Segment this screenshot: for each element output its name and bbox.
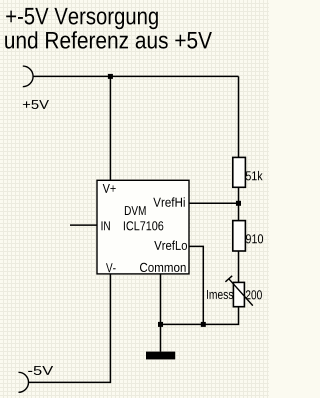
label -5V: [28, 366, 53, 375]
value 910: [246, 234, 263, 243]
wire 51k to 910: [238, 187, 240, 220]
wire VrefLo pin right then down: [189, 246, 203, 324]
wire V- pin down and left to -5V: [29, 274, 111, 383]
resistor R1 51k: [233, 157, 246, 187]
wire to ground: [160, 324, 162, 351]
pin label Common: [140, 263, 186, 272]
wire Common pin down: [160, 274, 162, 325]
junction VrefLo to common rail: [201, 322, 206, 327]
wire VrefHi pin: [189, 202, 239, 204]
wire pot bottom down and left along common rail: [161, 307, 239, 325]
resistor R2 910: [233, 221, 246, 251]
value ICL7106: [124, 221, 163, 230]
pin label V+: [103, 184, 116, 193]
title line 2: [5, 31, 212, 48]
pin label VrefHi: [153, 197, 184, 207]
connector +5V symbol: [23, 66, 33, 87]
IC U1 ICL7106 DVM box: [97, 180, 189, 274]
junction top V+ tap: [108, 74, 113, 79]
label +5V: [23, 100, 49, 109]
label DVM: [125, 206, 146, 215]
potentiometer arrow diagonal: [229, 279, 253, 306]
ground: [146, 352, 175, 360]
wire IN pin stub: [70, 224, 97, 226]
title line 1: [6, 8, 158, 29]
wire 910 to pot: [238, 251, 240, 282]
junction VrefHi node: [236, 201, 241, 206]
value 200: [246, 290, 262, 299]
pin label IN: [102, 221, 110, 230]
potentiometer P1 200 body: [233, 282, 244, 306]
pin label VrefLo: [154, 241, 187, 251]
connector -5V symbol: [19, 372, 29, 392]
value 51k: [246, 171, 263, 181]
wire top horizontal from +5V to corner: [33, 75, 238, 77]
potentiometer arrow tick: [225, 276, 232, 282]
pin label V-: [106, 263, 116, 272]
junction common rail: [158, 322, 163, 327]
wire down to R 51k: [238, 76, 240, 157]
wire V+ pin: [109, 76, 111, 180]
label Imess: [207, 290, 233, 299]
